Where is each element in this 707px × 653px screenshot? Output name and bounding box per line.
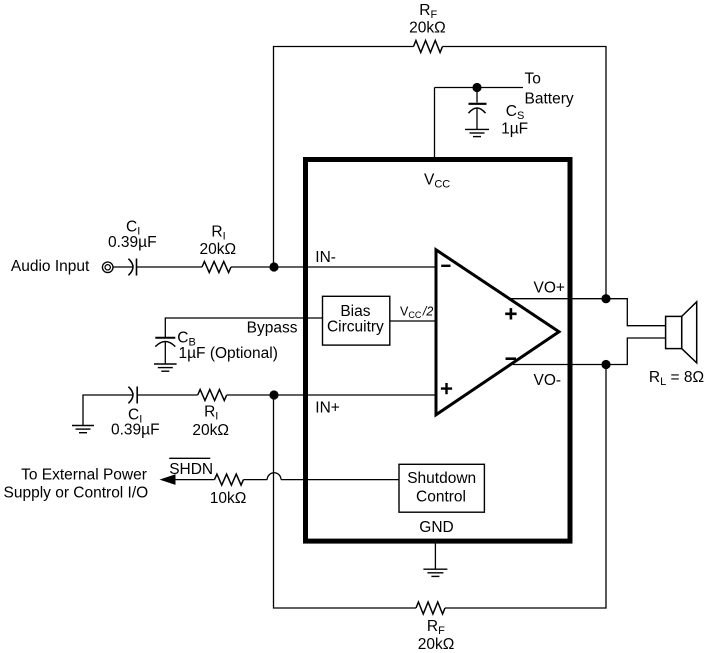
svg-text:SHDN: SHDN [169, 461, 213, 478]
ground (Cs) [465, 129, 489, 136]
ground (GND pin) [423, 569, 447, 576]
wire hop to shutdown control [281, 479, 399, 481]
resistor RI bottom [198, 390, 227, 401]
svg-text:0.39µF: 0.39µF [111, 422, 160, 439]
speaker RL [666, 302, 697, 363]
wire Cs top [476, 88, 478, 103]
capacitor CI top [128, 259, 136, 276]
svg-text:Bypass: Bypass [247, 320, 298, 337]
svg-text:GND: GND [419, 519, 453, 536]
op-amp minus input sign [441, 265, 450, 267]
resistor RF bottom [416, 602, 445, 614]
svg-text:VO-: VO- [534, 372, 562, 389]
svg-text:0.39µF: 0.39µF [108, 234, 157, 251]
wire VO- to speaker [513, 338, 666, 365]
wire Cb to ground [164, 342, 166, 364]
svg-text:Circuitry: Circuitry [327, 319, 384, 336]
capacitor CB [155, 338, 175, 347]
svg-text:To External Power: To External Power [21, 467, 147, 484]
op-amp minus output sign [506, 357, 517, 360]
svg-text:Battery: Battery [525, 91, 574, 108]
wire audio input to Ci [113, 266, 132, 268]
svg-text:1µF: 1µF [501, 120, 528, 137]
svg-text:To: To [525, 70, 541, 87]
node IN- junction [269, 262, 278, 271]
svg-text:20kΩ: 20kΩ [199, 241, 236, 258]
wire hop over feedback line [267, 473, 281, 480]
wire Vcc to battery [435, 87, 524, 89]
wire Cs bottom [476, 108, 478, 129]
wire bottom feedback right to VO- node [445, 365, 606, 609]
shdn arrow [160, 474, 176, 485]
svg-text:Audio Input: Audio Input [11, 258, 90, 275]
svg-text:IN-: IN- [315, 249, 336, 266]
node VO+ junction [601, 294, 610, 303]
wire IN+ node to bottom feedback loop [274, 395, 417, 608]
audio input connector [102, 262, 113, 273]
wire GND pin to ground [434, 544, 436, 570]
svg-text:RL = 8Ω: RL = 8Ω [649, 369, 704, 388]
wire bypass [165, 318, 322, 337]
svg-text:VO+: VO+ [534, 279, 565, 296]
IC package U1 [306, 160, 571, 542]
node IN+ junction [269, 390, 278, 399]
node VO- junction [601, 360, 610, 369]
svg-text:RI: RI [211, 223, 225, 242]
wire Ri to IN- [231, 266, 436, 268]
wire Ci lower to Ri lower [137, 394, 198, 396]
wire shdn arrow to resistor [173, 479, 215, 481]
resistor 10k shdn [215, 474, 244, 485]
svg-text:Control: Control [416, 489, 466, 506]
shutdown control block [399, 464, 484, 512]
resistor RI top [202, 262, 231, 273]
wire shdn resistor to hop [244, 479, 268, 481]
resistor RF top [414, 41, 443, 53]
svg-text:VCC/2: VCC/2 [400, 304, 433, 320]
wire Ri lower to IN+ [227, 394, 436, 396]
svg-text:IN+: IN+ [315, 400, 340, 417]
wire Vcc pin [434, 88, 436, 158]
svg-text:20kΩ: 20kΩ [192, 422, 229, 439]
wire bias output Vcc/2 [390, 320, 436, 322]
svg-text:20kΩ: 20kΩ [409, 20, 446, 37]
svg-text:10kΩ: 10kΩ [210, 490, 247, 507]
shdn overline [169, 457, 210, 459]
capacitor CS [469, 104, 487, 113]
svg-text:RI: RI [204, 404, 218, 423]
capacitor CI bottom [128, 387, 137, 404]
svg-text:VCC: VCC [424, 171, 450, 190]
svg-text:RF: RF [427, 618, 445, 637]
op-amp plus output sign [505, 308, 516, 319]
op-amp U1A [436, 250, 559, 415]
svg-text:20kΩ: 20kΩ [418, 636, 455, 653]
wire IN- node to top feedback loop [274, 47, 414, 268]
svg-text:1µF (Optional): 1µF (Optional) [179, 345, 278, 362]
op-amp plus input sign [441, 383, 452, 394]
wire top feedback right to VO+ node [443, 47, 607, 299]
svg-text:Supply or Control I/O: Supply or Control I/O [4, 485, 149, 502]
ground (Cb) [154, 364, 177, 371]
svg-text:Shutdown: Shutdown [407, 470, 476, 487]
wire VO+ to speaker [510, 299, 666, 326]
bias circuitry block [323, 296, 390, 345]
svg-text:RF: RF [419, 2, 437, 21]
wire Ci to Ri [137, 266, 203, 268]
wire ground to Ci lower [83, 395, 132, 426]
ground (audio in) [72, 426, 94, 433]
node battery junction [472, 83, 481, 92]
